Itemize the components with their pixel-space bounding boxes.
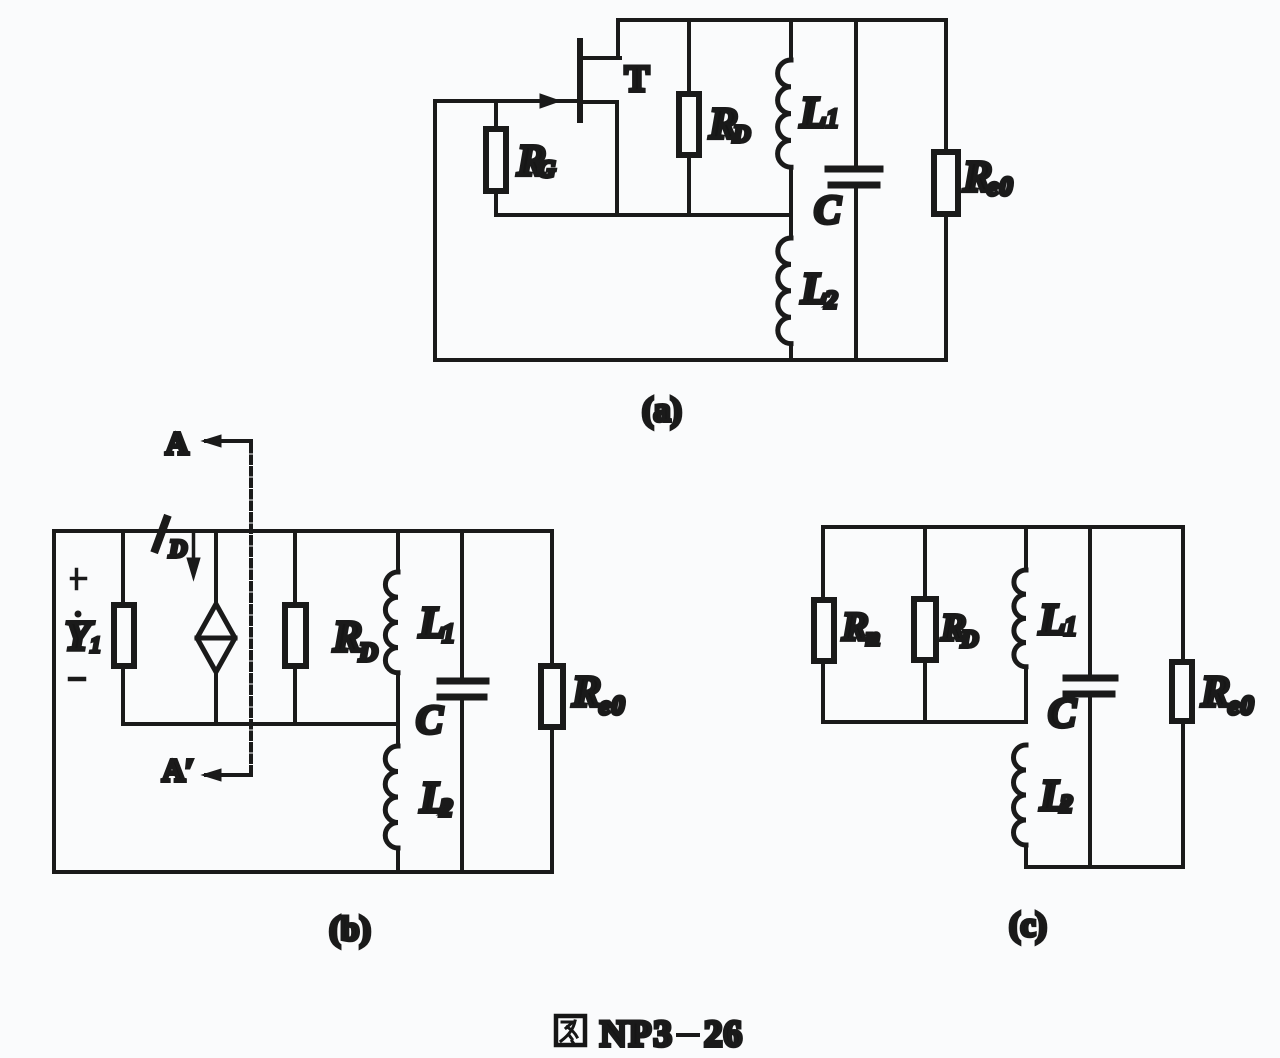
- svg-text:1: 1: [826, 104, 839, 133]
- label ID: [156, 519, 167, 549]
- wire: source lead: [582, 102, 617, 215]
- wire: bottom rail (b): [54, 870, 552, 874]
- svg-text:1: 1: [442, 619, 455, 648]
- wire: top rail (c): [823, 525, 1183, 529]
- capacitor C (b): [460, 531, 464, 679]
- svg-text:e0: e0: [599, 691, 626, 720]
- capacitor C (a): [854, 20, 858, 167]
- wire: outer left vertical (a): [433, 101, 437, 360]
- wire: bottom rail (a): [435, 358, 946, 362]
- svg-text:D: D: [960, 627, 978, 653]
- wire: inner bottom wire (c): [823, 720, 1026, 724]
- svg-text:(c): (c): [1009, 907, 1047, 944]
- inductor L2 (b): [385, 746, 398, 848]
- svg-text:1: 1: [90, 632, 101, 657]
- svg-text:R: R: [571, 667, 601, 716]
- label plus: [72, 570, 86, 589]
- wire: outer left vertical (b): [52, 531, 56, 872]
- resistor RD: [687, 20, 691, 215]
- svg-text:D: D: [358, 638, 378, 667]
- arrow ID: [192, 532, 196, 559]
- wire: inner bottom wire (a): [496, 213, 791, 217]
- inductor L1 (b): [396, 531, 400, 572]
- resistor Re0 (b): [550, 531, 554, 872]
- source Y1 box: [121, 531, 125, 724]
- resistor Re0 (a): [944, 20, 948, 360]
- svg-text:2: 2: [824, 287, 838, 314]
- current source (b): [214, 531, 218, 724]
- wire: drain corner: [582, 20, 620, 58]
- resistor RD (b): [293, 531, 297, 724]
- wire: top rail (b): [54, 529, 552, 533]
- svg-text:D: D: [168, 536, 187, 563]
- wire: inner bottom wire (b): [123, 722, 398, 726]
- svg-text:C: C: [416, 697, 444, 742]
- svg-text:NP3: NP3: [600, 1014, 674, 1055]
- node A dashed line: [249, 445, 253, 775]
- svg-text:T: T: [625, 59, 650, 100]
- svg-text:G: G: [538, 157, 556, 183]
- svg-text:D: D: [732, 122, 750, 148]
- svg-text:2: 2: [1059, 791, 1073, 818]
- svg-text:(a): (a): [642, 392, 682, 429]
- svg-text:R: R: [332, 612, 362, 661]
- svg-text:2: 2: [439, 795, 453, 822]
- transistor T gate bar: [577, 41, 583, 120]
- svg-text:R: R: [1200, 667, 1230, 716]
- arrowhead on gate: [540, 94, 560, 108]
- resistor RG: [494, 101, 498, 215]
- wire: gate lead with arrow: [435, 99, 576, 103]
- label minus: [70, 677, 84, 682]
- svg-text:C: C: [814, 187, 842, 232]
- inductor L2 (a): [789, 215, 793, 238]
- svg-text:(b): (b): [329, 911, 371, 948]
- svg-text:C: C: [1048, 691, 1077, 737]
- wire: top rail (a): [618, 18, 946, 22]
- svg-text:L: L: [1038, 595, 1066, 644]
- wire: bottom rail (c): [1026, 865, 1183, 869]
- svg-text:n: n: [866, 624, 880, 651]
- resistor Rn: [821, 527, 825, 722]
- svg-text:26: 26: [704, 1014, 743, 1055]
- svg-text:L: L: [799, 88, 827, 137]
- svg-text:R: R: [841, 604, 869, 649]
- svg-text:L: L: [800, 264, 828, 313]
- svg-text:e0: e0: [1228, 691, 1255, 720]
- inductor L1 (a): [789, 20, 793, 60]
- svg-text:A′: A′: [162, 752, 194, 788]
- svg-text:1: 1: [1064, 612, 1077, 641]
- svg-text:A: A: [165, 425, 188, 461]
- capacitor C (c): [1088, 527, 1092, 676]
- caption glyph 图: [556, 1016, 585, 1045]
- inductor L2 (c): [1014, 745, 1027, 845]
- resistor RD (c): [923, 527, 927, 722]
- resistor Re0 (c): [1181, 527, 1185, 867]
- inductor L1 (c): [1024, 527, 1028, 570]
- svg-text:e0: e0: [987, 172, 1014, 201]
